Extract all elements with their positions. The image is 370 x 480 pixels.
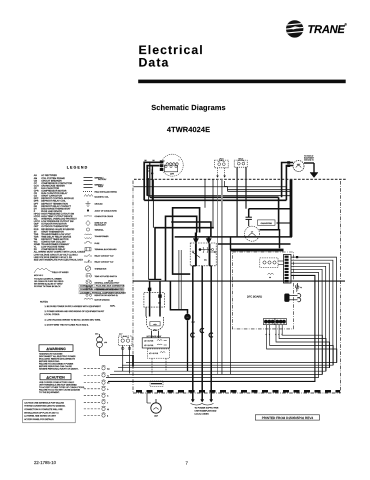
svg-text:CONNECTION IN COMPLETE WILL US: CONNECTION IN COMPLETE WILL USE: [24, 408, 63, 411]
svg-text:CB: CB: [34, 179, 38, 182]
svg-text:LPCO: LPCO: [34, 220, 40, 223]
svg-text:THERMISTOR: THERMISTOR: [95, 268, 108, 271]
svg-text:TDR: TDR: [34, 235, 39, 238]
svg-text:FIELD: FIELD: [98, 185, 104, 188]
svg-text:T: T: [107, 401, 108, 404]
svg-text:4. DON'T WIRE THE HOT LINES P: 4. DON'T WIRE THE HOT LINES PLUG AND 2.: [45, 324, 90, 327]
svg-text:NOTES:: NOTES:: [40, 301, 49, 304]
svg-text:AT 0 S FOR: AT 0 S FOR: [144, 340, 154, 343]
svg-text:SEVERE PERSONAL INJURY OR DEAT: SEVERE PERSONAL INJURY OR DEATH.: [39, 368, 79, 371]
svg-text:FACTORY: FACTORY: [98, 178, 107, 181]
svg-text:ALL WIRING MUST COMPLY WITH LO: ALL WIRING MUST COMPLY WITH LOCAL CODES: [34, 251, 86, 254]
svg-text:(RV): (RV): [153, 328, 157, 331]
svg-text:PRINTED FROM D150505P02 REV4: PRINTED FROM D150505P02 REV4: [262, 416, 314, 420]
svg-text:AT 0 S FOR: AT 0 S FOR: [144, 344, 154, 347]
svg-text:LINE VOLTAGE 208/230 V 60 HZ 1: LINE VOLTAGE 208/230 V 60 HZ 1 PH: [34, 256, 73, 259]
svg-text:SYSTEM CONSISTING LESS-TO-DAMA: SYSTEM CONSISTING LESS-TO-DAMAGE.: [24, 405, 66, 408]
svg-text:TO THE EQUIPMENT.: TO THE EQUIPMENT.: [39, 391, 60, 394]
svg-text:START THERMISTOR: START THERMISTOR: [41, 230, 64, 233]
svg-text:ACCESS PANEL FOR DETAILS.: ACCESS PANEL FOR DETAILS.: [24, 418, 54, 421]
svg-text:W2: W2: [107, 367, 110, 370]
svg-text:RELAY CONTACT 'N.O': RELAY CONTACT 'N.O': [95, 255, 115, 258]
svg-text:Data: Data: [139, 55, 170, 69]
svg-text:AC RECTIFIER: AC RECTIFIER: [41, 174, 57, 177]
svg-text:LOCATED — PHYSICAL COMPONENT G: LOCATED — PHYSICAL COMPONENT GROUPING: [80, 292, 126, 295]
svg-text:CPR: CPR: [170, 172, 175, 175]
svg-text:1. BE SURE POWER SUPPLY AGREE: 1. BE SURE POWER SUPPLY AGREES WITH EQUI…: [45, 305, 102, 308]
svg-text:AH: AH: [34, 174, 38, 177]
svg-text:LOW PRESSURE CUTOUT SW: LOW PRESSURE CUTOUT SW: [41, 220, 74, 223]
svg-text:MOV 40 J: MOV 40 J: [34, 274, 43, 277]
svg-text:CAPACITOR: CAPACITOR: [261, 222, 273, 225]
svg-text:AMPL: AMPL: [110, 305, 115, 308]
svg-text:SEE UNIT NAMEPLATE FOR ELECTRI: SEE UNIT NAMEPLATE FOR ELECTRICAL DATA: [34, 258, 84, 261]
svg-text:Y1: Y1: [107, 374, 109, 377]
svg-text:TIME DELAY RELAY DEVICE: TIME DELAY RELAY DEVICE: [41, 235, 71, 238]
svg-text:⚠WARNING: ⚠WARNING: [46, 347, 66, 351]
svg-text:MOTOR WINDING: MOTOR WINDING: [95, 299, 111, 302]
svg-text:FUSE LINK DEVICE: FUSE LINK DEVICE: [41, 210, 62, 213]
svg-text:X2: X2: [107, 408, 109, 411]
svg-text:LEGEND: LEGEND: [67, 165, 89, 169]
svg-text:LOCAL CODES: LOCAL CODES: [195, 412, 210, 415]
svg-text:4TWR4024E: 4TWR4024E: [167, 125, 210, 134]
svg-text:MAGNETIC COIL: MAGNETIC COIL: [95, 196, 109, 199]
svg-text:⚠CAUTION: ⚠CAUTION: [46, 375, 65, 379]
svg-text:TRANE: TRANE: [308, 24, 346, 36]
svg-text:Schematic Diagrams: Schematic Diagrams: [151, 103, 226, 112]
svg-text:FIELD INSTALLED WIRING: FIELD INSTALLED WIRING: [95, 190, 118, 193]
svg-text:3. LOW VOLTAGE WIRING TO BE N: 3. LOW VOLTAGE WIRING TO BE NO. 18 AWG M…: [45, 318, 102, 321]
svg-text:CCH: CCH: [34, 184, 39, 187]
svg-text:DR: DR: [34, 205, 38, 208]
svg-text:FUSE: FUSE: [95, 242, 101, 245]
svg-text:TEMP ACTUATED SWITCH: TEMP ACTUATED SWITCH: [95, 275, 118, 278]
svg-text:UNIT NAMEPLATE AND: UNIT NAMEPLATE AND: [195, 409, 217, 412]
svg-text:TRANSFORMER: TRANSFORMER: [95, 235, 110, 238]
svg-text:WC: WC: [34, 241, 38, 244]
svg-text:WH WHTE BL BLUE GY GR: WH WHTE BL BLUE GY GRAY: [34, 283, 63, 286]
svg-text:JUNCT OF CONDUCTORS: JUNCT OF CONDUCTORS: [95, 210, 118, 213]
svg-text:OUTDOOR THERMOSTAT: OUTDOOR THERMOSTAT: [41, 225, 69, 228]
svg-text:FIELD OF WIRES: FIELD OF WIRES: [52, 271, 69, 274]
svg-text:CONNECTION — PLUG AND JACK CON: CONNECTION — PLUG AND JACK CONNECTOR: [80, 285, 125, 288]
svg-text:DEFROST RELAY CONTACT: DEFROST RELAY CONTACT: [41, 205, 71, 208]
svg-text:CS: CS: [34, 195, 38, 198]
svg-text:LPCO: LPCO: [219, 157, 224, 160]
svg-text:GROUND HI: GROUND HI: [304, 158, 314, 161]
svg-text:CIRCUIT BREAKER: CIRCUIT BREAKER: [41, 179, 62, 182]
svg-text:GROUND: GROUND: [95, 203, 104, 206]
svg-text:YO BLAK LB BRN YL GRE: YO BLAK LB BRN YL GREEN: [34, 278, 62, 281]
svg-text:PK PINK TN TANN BK BL: PK PINK TN TANN BK BLCK: [34, 285, 61, 288]
svg-text:LOCAL CODES.: LOCAL CODES.: [45, 313, 61, 316]
svg-text:RESISTOR OR HEATING EL: RESISTOR OR HEATING EL: [95, 294, 118, 297]
svg-text:TERMINAL: TERMINAL: [95, 229, 104, 232]
svg-text:22-1785-10: 22-1785-10: [34, 460, 57, 465]
svg-text:CRANKCASE HEATER: CRANKCASE HEATER: [41, 184, 65, 187]
svg-text:CPR: CPR: [34, 190, 39, 193]
svg-text:EQUIVALENT: EQUIVALENT: [95, 224, 107, 227]
svg-text:COMPRESSOR MOTOR: COMPRESSOR MOTOR: [41, 190, 67, 193]
svg-text:TERMINAL BLOCKBOARD: TERMINAL BLOCKBOARD: [95, 248, 118, 251]
svg-text:DEFROST RELAY COIL: DEFROST RELAY COIL: [41, 200, 66, 203]
svg-text:DFR: DFR: [34, 200, 39, 203]
svg-text:CONTACTOR COIL 24V: CONTACTOR COIL 24V: [41, 241, 66, 244]
svg-text:JA-40: JA-40: [108, 280, 113, 283]
svg-text:LOW VOLTAGE TERM: LOW VOLTAGE TERM: [41, 246, 64, 249]
svg-text:ODT: ODT: [34, 225, 39, 228]
svg-text:2. POWER WIRING AND GROUNDING: 2. POWER WIRING AND GROUNDING OF EQUIPME…: [45, 310, 105, 313]
svg-text:HTCO: HTCO: [34, 215, 41, 218]
svg-text:TO POWER SUPPLY PER: TO POWER SUPPLY PER: [195, 407, 219, 410]
svg-text:CONDUCTOR CROSS: CONDUCTOR CROSS: [95, 215, 114, 218]
svg-text:AT 0 S FOR: AT 0 S FOR: [149, 352, 159, 355]
svg-text:HIGH TEMP CUTOUT DEVICE: HIGH TEMP CUTOUT DEVICE: [41, 215, 73, 218]
svg-text:RELAY CONTACT 'N.C': RELAY CONTACT 'N.C': [95, 261, 115, 264]
svg-text:DFC BOARD: DFC BOARD: [247, 295, 262, 298]
svg-text:LA TERRE. SEE NOTES ON UNIT: LA TERRE. SEE NOTES ON UNIT: [24, 415, 56, 418]
svg-text:START CAPACITOR: START CAPACITOR: [41, 195, 62, 198]
svg-text:CAUTION USE MATERIALS FOR WIL: CAUTION USE MATERIALS FOR WILLING: [24, 401, 64, 404]
svg-text:CONNECTION — TERMINAL BOARD MO: CONNECTION — TERMINAL BOARD MOUNTED: [80, 288, 124, 291]
svg-text:INSTALLATION OF PLUG AT 240 V: INSTALLATION OF PLUG AT 240 V A: [24, 411, 59, 414]
